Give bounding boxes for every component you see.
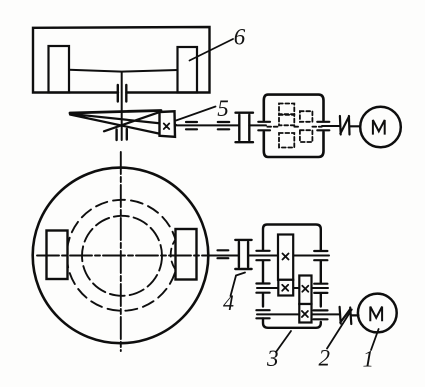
bearing dashes right of table [218,250,229,258]
gear output [299,304,311,323]
vertical screw shaft [121,72,123,140]
screw coupling upper bars [118,85,127,102]
leader 6 [190,39,234,61]
worm box with x [160,111,176,137]
motor M2 letter [370,307,382,322]
motor M2 circle [358,294,397,333]
gear block middle-right [299,276,311,305]
svg-text:4: 4 [223,290,234,315]
motor M1 letter [373,120,385,135]
x mark in worm box [164,124,169,130]
leader 2 [327,310,352,349]
cone drive 5 [70,111,161,114]
shaft bearing A dashes [186,122,197,129]
shaft bearing B dashes [218,122,229,129]
svg-text:2: 2 [318,346,330,371]
right slider block [178,47,198,93]
middle shaft lower gearbox [257,287,328,289]
gear pinion dashed lower-right [300,130,313,142]
gear pinion dashed upper-left B [279,115,294,126]
flange coupling upper I-symbol [236,113,254,143]
pinion pitch arc at right block [171,230,188,279]
dashed internal shaft upper gearbox [267,126,322,128]
gear pinion dashed upper-left A [279,104,294,115]
gearbox housing upper [264,95,324,157]
table outer circle [33,168,209,344]
svg-text:1: 1 [363,347,375,372]
svg-text:6: 6 [234,25,246,50]
leader 1 [371,329,379,350]
beam rail line [69,70,178,72]
wall bearings left lower gearbox [256,251,269,318]
svg-text:5: 5 [217,96,229,121]
pinion block left [47,231,68,280]
x mark gear input [283,254,289,260]
wall bearings right lower gearbox [314,251,328,319]
horizontal centerline [37,255,208,257]
leader 3 [276,331,291,352]
coupling 4 I-symbol [235,240,251,269]
gear pinion dashed upper-right [300,111,313,122]
upper drive shaft [175,124,340,127]
output shaft lower [257,313,339,315]
elastic coupling lower zigzag [340,307,359,324]
dashed circle inner [82,216,162,296]
x mark gear output [302,311,308,317]
dashed circle outer [67,200,178,311]
gear middle-left [278,280,293,296]
x mark gear middle-right [302,286,308,292]
wall bearing left upper gearbox [258,122,270,131]
wall bearing right upper gearbox [317,122,329,131]
pinion block right [176,229,197,280]
crossbeam housing 6 [33,27,210,93]
vertical centerline [120,152,122,351]
elastic coupling upper zigzag [340,116,360,135]
x mark gear middle-left [282,285,288,291]
gear pinion dashed lower-left [279,133,294,148]
leader 5 [176,107,216,121]
left slider block [49,46,70,93]
screw coupling lower bars [117,129,127,140]
input shaft lower gearbox [278,255,329,257]
motor M1 circle [360,107,401,148]
table shaft to coupling [205,255,278,257]
gearbox 3 frame [263,225,321,328]
leader 4 [231,273,246,297]
gear block input tall [278,235,293,280]
